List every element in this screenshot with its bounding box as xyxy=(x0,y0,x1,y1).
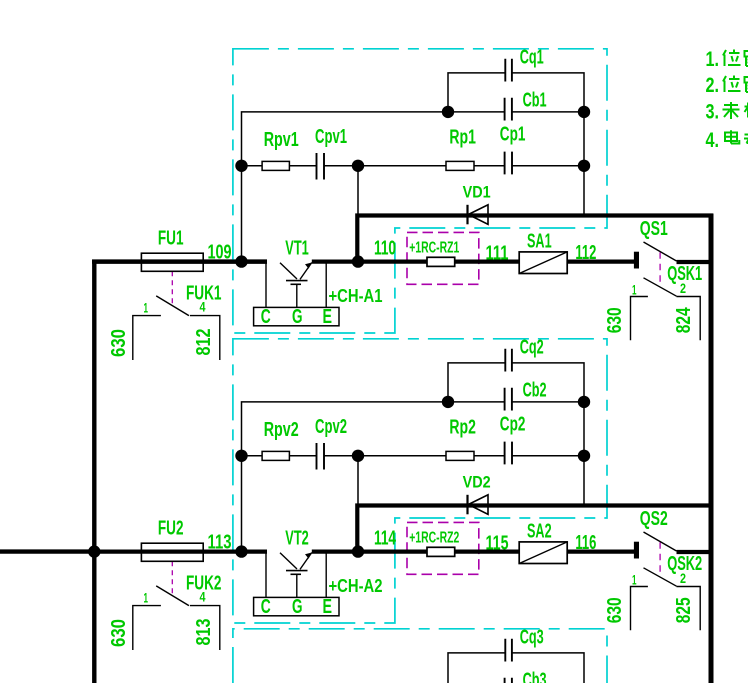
wire Rpv2 row xyxy=(242,455,585,457)
svg-text:VT1: VT1 xyxy=(285,238,309,260)
node Cb row left xyxy=(442,396,454,408)
note line 2 weizhi char1 xyxy=(723,76,741,93)
wire SA1 row xyxy=(312,260,634,264)
disconnect switch QS1 blade xyxy=(644,242,677,261)
transistor VT2 gate bar xyxy=(291,573,302,575)
switch FUK1 blade xyxy=(156,296,189,316)
svg-text:813: 813 xyxy=(193,619,215,646)
note line 1 weizhi char2 xyxy=(745,51,748,66)
node Rpv row mid xyxy=(352,160,364,172)
capacitor Cq1 xyxy=(505,59,512,82)
transistor VT2 emitter lead xyxy=(325,552,327,598)
wire Rpv1 row xyxy=(242,165,585,167)
svg-text:+1RC-RZ2: +1RC-RZ2 xyxy=(409,530,459,547)
wire SA2 row xyxy=(312,549,634,553)
node 114 xyxy=(352,545,364,557)
switch QSK2 right terminal xyxy=(677,587,701,631)
svg-text:630: 630 xyxy=(604,307,626,333)
node Cp row right xyxy=(578,450,590,462)
transistor VT1 left diagonal xyxy=(280,263,297,279)
magenta link QS1-QSK1 xyxy=(659,252,661,284)
wire FU1 row xyxy=(92,260,267,264)
svg-text:QS1: QS1 xyxy=(640,218,668,240)
svg-text:1: 1 xyxy=(632,282,637,298)
wire thick bus VD1 row with corner to node 110 xyxy=(357,216,713,262)
svg-text:C: C xyxy=(261,306,271,328)
diode VD1 cathode bar xyxy=(466,205,468,225)
wire thick bus VD2 row with corner to node 114 xyxy=(357,506,713,552)
capacitor Cq2 xyxy=(505,349,512,372)
svg-text:Cp2: Cp2 xyxy=(500,414,526,436)
svg-text:Cpv2: Cpv2 xyxy=(315,416,347,438)
switch QSK1 left terminal xyxy=(631,297,648,341)
transistor VT2 collector lead xyxy=(265,552,267,598)
wire Cq1 loop xyxy=(448,73,584,112)
magenta box RC-RZ1 xyxy=(407,232,479,284)
wire right column x584 xyxy=(583,402,585,506)
capacitor Cpv1 xyxy=(317,153,325,180)
capacitor Cp2 xyxy=(505,442,512,465)
svg-text:109: 109 xyxy=(208,242,232,264)
svg-text:2.: 2. xyxy=(706,74,720,97)
wire thick stub QS1 to right bus xyxy=(677,260,713,264)
capacitor Cb3 (partial) xyxy=(505,678,512,683)
node Rpv row left xyxy=(235,450,247,462)
wire FU2 row xyxy=(92,549,267,553)
breaker SA1 diagonal xyxy=(519,252,567,274)
switch FUK2 left terminal xyxy=(133,606,161,650)
disconnect switch QS2 contact bar xyxy=(634,542,639,559)
note line 3 weibiao char1 xyxy=(723,102,740,119)
svg-text:E: E xyxy=(323,306,333,328)
svg-text:630: 630 xyxy=(604,597,626,623)
breaker SA1 xyxy=(519,252,567,274)
wire right vertical bus xyxy=(709,214,714,684)
transistor VT1 right diagonal with arrow xyxy=(300,263,312,280)
node Cp row right xyxy=(578,160,590,172)
transistor VT1 collector lead xyxy=(265,262,267,308)
switch FUK2 right terminal xyxy=(190,606,220,650)
svg-text:E: E xyxy=(323,596,333,618)
switch QSK2 left terminal xyxy=(631,587,648,631)
transistor VT1 emitter lead xyxy=(325,262,327,308)
svg-text:2: 2 xyxy=(680,280,686,296)
magenta box RC-RZ2 xyxy=(407,522,479,574)
terminal box VT1 xyxy=(254,307,339,325)
wire Cb row left + riser to node 113 xyxy=(242,402,449,552)
svg-text:115: 115 xyxy=(486,533,509,555)
breaker SA2 diagonal xyxy=(519,542,567,564)
auxiliary switch QSK2 blade xyxy=(644,568,677,586)
svg-text:SA1: SA1 xyxy=(527,231,552,253)
svg-text:Cq3: Cq3 xyxy=(520,626,544,648)
note line 2 weizhi char2 xyxy=(745,77,748,92)
wire Cq3 loop (partial) xyxy=(448,653,584,683)
svg-text:FU1: FU1 xyxy=(158,228,184,250)
svg-text:4: 4 xyxy=(200,589,206,605)
node Cb row left xyxy=(442,106,454,118)
svg-text:+CH-A2: +CH-A2 xyxy=(329,576,383,596)
transistor VT2 left diagonal xyxy=(280,553,297,569)
wire Cb row left + riser to node 109 xyxy=(242,112,449,262)
transistor VT1 gate lead xyxy=(296,284,298,307)
svg-text:+1RC-RZ1: +1RC-RZ1 xyxy=(409,240,459,257)
wire right column x584 xyxy=(583,112,585,216)
wire riser x358 to bus xyxy=(357,166,359,216)
capacitor Cb2 xyxy=(505,388,512,411)
transistor VT1 gate bar xyxy=(291,283,302,285)
svg-text:113: 113 xyxy=(208,532,232,554)
svg-text:G: G xyxy=(292,596,303,618)
svg-text:FU2: FU2 xyxy=(158,518,184,540)
wire left vertical bus with FU1 corner xyxy=(94,262,267,683)
node 110 xyxy=(352,255,364,267)
wire left feed at 551 xyxy=(0,549,96,553)
note line 4 diandong char2 xyxy=(744,131,748,146)
svg-text:110: 110 xyxy=(374,238,396,260)
resistor RC-RZ1 xyxy=(427,257,455,266)
svg-text:Cb1: Cb1 xyxy=(523,90,547,112)
svg-text:111: 111 xyxy=(486,243,509,265)
wire Cb1 row xyxy=(448,111,584,113)
magenta link QS2-QSK2 xyxy=(659,542,661,574)
svg-text:QS2: QS2 xyxy=(640,508,668,530)
svg-text:1.: 1. xyxy=(706,48,720,71)
wire riser x358 to bus xyxy=(357,456,359,506)
capacitor Cpv2 xyxy=(317,443,325,470)
wire Cb2 row xyxy=(448,401,584,403)
transistor VT2 gate lead xyxy=(296,574,298,597)
node left bus junction 551 xyxy=(88,545,100,557)
node 113 xyxy=(235,545,247,557)
svg-text:112: 112 xyxy=(575,242,596,264)
node Rpv row mid xyxy=(352,450,364,462)
node Rpv row left xyxy=(235,160,247,172)
disconnect switch QS2 blade xyxy=(644,532,677,551)
svg-text:630: 630 xyxy=(108,329,130,357)
fuse FU1 xyxy=(141,253,203,271)
transistor VT1 cathode bar xyxy=(286,280,308,282)
svg-text:1: 1 xyxy=(144,590,149,606)
transistor VT2 right diagonal with arrow xyxy=(300,553,312,570)
resistor Rp2 xyxy=(446,451,474,460)
transistor VT2 cathode bar xyxy=(286,570,308,572)
svg-text:Rpv2: Rpv2 xyxy=(264,419,299,441)
svg-text:1: 1 xyxy=(144,300,149,316)
svg-text:VD2: VD2 xyxy=(463,473,491,492)
svg-text:2: 2 xyxy=(680,570,686,586)
svg-text:825: 825 xyxy=(673,597,695,623)
svg-text:G: G xyxy=(292,306,303,328)
svg-text:3.: 3. xyxy=(706,100,720,123)
diode VD2 triangle xyxy=(468,495,488,515)
svg-text:630: 630 xyxy=(108,619,130,647)
svg-text:Cp1: Cp1 xyxy=(500,124,526,146)
resistor Rpv2 xyxy=(262,451,289,460)
svg-text:C: C xyxy=(261,596,271,618)
node 109 xyxy=(235,255,247,267)
resistor RC-RZ2 xyxy=(427,547,455,556)
capacitor Cb1 xyxy=(505,98,512,121)
node Cb row right xyxy=(578,106,590,118)
svg-text:Cb2: Cb2 xyxy=(523,380,547,402)
svg-text:Cb3: Cb3 xyxy=(523,669,547,683)
cyan enclosure block 2 xyxy=(233,339,607,623)
switch FUK1 right terminal xyxy=(190,316,220,360)
svg-text:1: 1 xyxy=(632,572,637,588)
resistor Rpv1 xyxy=(262,161,289,170)
disconnect switch QS1 contact bar xyxy=(634,252,639,269)
svg-text:4: 4 xyxy=(200,299,206,315)
note line 4 diandong char1 xyxy=(725,130,739,143)
switch FUK2 blade xyxy=(156,586,189,606)
svg-text:SA2: SA2 xyxy=(527,521,552,543)
breaker SA2 xyxy=(519,542,567,564)
svg-text:4.: 4. xyxy=(706,129,720,152)
svg-text:812: 812 xyxy=(193,329,215,356)
magenta link FU2-FUK2 xyxy=(171,561,173,593)
svg-text:Cpv1: Cpv1 xyxy=(315,126,347,148)
cyan enclosure block 1 xyxy=(233,49,607,333)
capacitor Cq3 xyxy=(505,639,512,662)
note line 1 weizhi char1 xyxy=(723,50,741,67)
diode VD2 cathode bar xyxy=(466,495,468,515)
switch FUK1 left terminal xyxy=(133,316,161,360)
wire thick stub QS2 to right bus xyxy=(677,550,713,554)
fuse FU2 xyxy=(141,543,203,561)
wire Cq2 loop xyxy=(448,363,584,402)
svg-text:Cq2: Cq2 xyxy=(520,336,544,358)
node Cb row right xyxy=(578,396,590,408)
auxiliary switch QSK1 blade xyxy=(644,278,677,296)
cyan enclosure block 3 (partial) xyxy=(233,629,607,683)
svg-text:Rp2: Rp2 xyxy=(449,417,476,439)
svg-text:Rpv1: Rpv1 xyxy=(264,129,299,151)
svg-text:116: 116 xyxy=(575,532,596,554)
switch QSK1 right terminal xyxy=(677,297,701,341)
svg-text:114: 114 xyxy=(374,528,397,550)
capacitor Cp1 xyxy=(505,152,512,175)
svg-text:824: 824 xyxy=(673,307,695,334)
terminal box VT2 xyxy=(254,597,339,615)
svg-text:Rp1: Rp1 xyxy=(449,127,476,149)
svg-text:Cq1: Cq1 xyxy=(520,46,544,68)
magenta link FU1-FUK1 xyxy=(171,271,173,303)
svg-text:VT2: VT2 xyxy=(285,528,309,550)
resistor Rp1 xyxy=(446,161,474,170)
svg-text:+CH-A1: +CH-A1 xyxy=(329,286,383,306)
svg-text:VD1: VD1 xyxy=(463,183,491,202)
note line 3 weibiao char2 xyxy=(745,103,748,118)
diode VD1 triangle xyxy=(468,205,488,225)
